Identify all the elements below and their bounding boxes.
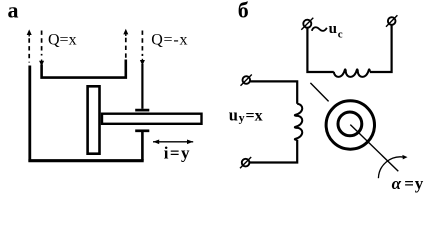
cylinder left wall xyxy=(28,66,31,162)
svg-text:Q=x: Q=x xyxy=(48,32,77,49)
top winding wire left lead xyxy=(307,28,333,72)
shaft upper segment xyxy=(310,83,328,102)
terminal T4 (control winding bottom) xyxy=(242,159,250,167)
arrow up on pipe line 3 xyxy=(123,29,128,35)
piston xyxy=(88,86,100,153)
svg-text:c: c xyxy=(338,28,343,40)
control winding coil Wy xyxy=(295,104,302,140)
terminal T2 (top winding right) xyxy=(388,17,396,25)
cylinder bottom xyxy=(28,159,143,162)
pipe line 3 dashed (up arrow) xyxy=(125,38,127,59)
top winding wire right lead xyxy=(370,25,392,72)
upper gland flange tick xyxy=(135,109,149,112)
pipe line 4 dashed (down arrow) xyxy=(141,31,143,57)
arrow down on pipe line 2 xyxy=(39,61,44,67)
control winding bottom wire xyxy=(249,140,297,163)
right port pipe (solid continuation of line 4) xyxy=(141,64,143,109)
svg-text:б: б xyxy=(238,0,249,22)
displacement double arrow xyxy=(153,141,193,143)
lower gland flange tick xyxy=(135,129,149,132)
arrow up on pipe line 1 xyxy=(27,29,32,35)
svg-text:=x: =x xyxy=(246,107,263,124)
pipe line 1 dashed (left, up arrow) xyxy=(28,38,30,62)
arrow down on pipe line 4 xyxy=(140,60,145,66)
svg-text:i=y: i=y xyxy=(164,144,191,163)
pipe line 2 dashed (down arrow) xyxy=(41,31,43,56)
svg-text:u: u xyxy=(329,21,337,37)
terminal T1 (top winding left) xyxy=(303,20,311,28)
control winding top wire xyxy=(250,81,297,103)
tilde of ~uc xyxy=(312,27,327,31)
motor stator circle xyxy=(326,101,374,149)
rotation arc arrow xyxy=(378,157,403,178)
shaft lower segment xyxy=(350,125,398,172)
cylinder right wall xyxy=(141,132,144,161)
svg-text:y: y xyxy=(239,110,245,124)
svg-text:Q=-x: Q=-x xyxy=(151,32,188,49)
terminal T3 (control winding top) xyxy=(243,76,251,84)
svg-text:а: а xyxy=(8,0,19,22)
top winding coil Wc xyxy=(334,69,370,76)
svg-text:=y: =y xyxy=(404,174,424,193)
motor rotor circle xyxy=(338,112,362,136)
piston rod xyxy=(102,114,202,124)
svg-text:α: α xyxy=(392,174,402,193)
cylinder top cover (U bracket) xyxy=(42,60,126,78)
svg-text:u: u xyxy=(229,105,238,124)
